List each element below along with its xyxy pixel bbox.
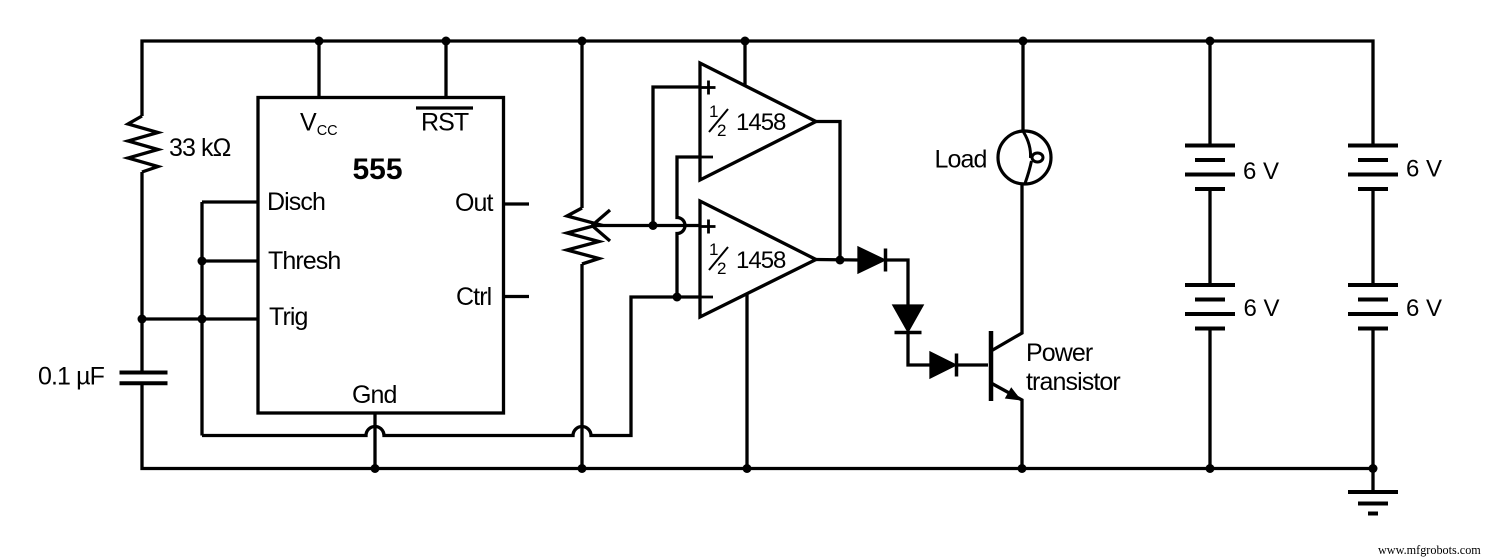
- svg-text:6 V: 6 V: [1244, 295, 1280, 322]
- battery BT4 plates: [1348, 285, 1398, 329]
- svg-text:Ctrl: Ctrl: [456, 283, 491, 311]
- svg-text:Trig: Trig: [269, 303, 308, 331]
- node dot bottom rail right corner: [1369, 464, 1378, 473]
- wire Disch pin: [202, 200, 258, 203]
- transistor Q1 emitter lead with arrow: [991, 383, 1022, 469]
- wire U2a output down to shared output node: [816, 122, 840, 261]
- lamp LP1 load circle: [998, 131, 1051, 184]
- wire Gnd pin down to rail: [373, 413, 376, 469]
- U2b plus sign: [702, 220, 716, 234]
- wire RST pin to rail: [444, 41, 447, 97]
- wire ctrl stub: [503, 295, 529, 298]
- op-amp U2b triangle: [700, 201, 816, 317]
- label half 1458 bottom: [709, 240, 786, 278]
- RST overline bar: [416, 106, 473, 109]
- svg-text:Load: Load: [935, 146, 987, 174]
- node dot minus junction: [673, 293, 682, 302]
- wire U2a V+ to rail: [743, 41, 746, 86]
- wire BT4 to bottom rail corner: [1371, 329, 1374, 493]
- wire potentiometer bottom: [580, 264, 583, 469]
- node dot U2b supply on bottom rail: [743, 464, 752, 473]
- node dot BT1 on rail: [1206, 37, 1215, 46]
- wire Thresh pin: [202, 259, 258, 262]
- diode D1: [859, 249, 886, 272]
- resistor R1 33k zigzag: [128, 116, 158, 172]
- U2b minus sign: [701, 296, 713, 299]
- svg-text:2: 2: [717, 121, 726, 140]
- wire wiper to comparator plus with hop: [592, 224, 700, 227]
- svg-text:Out: Out: [455, 189, 494, 217]
- node dot lamp on rail: [1019, 37, 1028, 46]
- wire D3 to transistor base: [957, 363, 989, 366]
- battery BT3 plates: [1348, 146, 1398, 190]
- node dot thresh junction: [198, 257, 207, 266]
- wire out stub: [503, 202, 529, 205]
- svg-text:RST: RST: [421, 109, 469, 137]
- svg-text:0.1 µF: 0.1 µF: [38, 363, 105, 391]
- transistor Q1 base bar: [989, 331, 994, 401]
- node dot pot top rail: [578, 37, 587, 46]
- battery BT1 plates: [1185, 146, 1235, 190]
- svg-text:1: 1: [709, 102, 718, 121]
- node dot Vcc on rail: [315, 37, 324, 46]
- wire U2a minus input down to U2b minus node: [677, 157, 700, 297]
- node dot op-amp outputs join: [836, 256, 845, 265]
- svg-text:1458: 1458: [736, 109, 786, 136]
- potentiometer R2 zigzag: [567, 208, 599, 264]
- node dot U2a supply on rail: [741, 37, 750, 46]
- wire Vcc pin to rail: [317, 41, 320, 97]
- wire BT2 to bottom rail: [1208, 329, 1211, 469]
- svg-text:Disch: Disch: [267, 188, 325, 216]
- potentiometer wiper arrow: [592, 210, 610, 241]
- wire left column below resistor to capacitor: [140, 172, 143, 371]
- wire Trig pin: [142, 317, 258, 320]
- ground symbol: [1348, 492, 1398, 514]
- wire lamp top to rail: [1021, 41, 1024, 131]
- svg-text:Power: Power: [1026, 339, 1093, 367]
- wire potentiometer top: [580, 41, 583, 208]
- node dot trig tap on left wire: [138, 315, 147, 324]
- label half 1458 top: [709, 102, 786, 140]
- wire rail to BT1: [1208, 41, 1211, 146]
- transistor Q1 collector lead: [991, 184, 1022, 351]
- node dot RST on rail: [442, 37, 451, 46]
- node dot emitter on bottom rail: [1018, 464, 1027, 473]
- svg-text:1: 1: [709, 240, 718, 259]
- diode D3: [931, 354, 957, 377]
- U2a plus sign: [702, 81, 716, 95]
- svg-text:33 kΩ: 33 kΩ: [169, 134, 231, 162]
- wire D2 to corner right: [908, 333, 931, 366]
- U2a minus sign: [701, 156, 713, 159]
- wire U2b V- to bottom rail: [745, 294, 748, 469]
- wire vertical disch-thresh-trig bus: [200, 202, 203, 436]
- svg-text:Gnd: Gnd: [352, 381, 397, 409]
- svg-text:Thresh: Thresh: [268, 247, 340, 275]
- svg-text:6 V: 6 V: [1406, 295, 1442, 322]
- wire BT1 to BT2: [1208, 189, 1211, 285]
- node dot BT2 on bottom rail: [1206, 464, 1215, 473]
- node dot gnd on bottom rail: [371, 464, 380, 473]
- node dot trig junction: [198, 315, 207, 324]
- svg-text:VCC: VCC: [300, 109, 338, 140]
- svg-text:www.mfgrobots.com: www.mfgrobots.com: [1378, 543, 1481, 557]
- wire feedback with hops over gnd and pot wires: [202, 297, 700, 436]
- svg-text:1458: 1458: [736, 247, 786, 274]
- wire BT3 to BT4: [1371, 189, 1374, 285]
- wire branch up to U2a plus input: [653, 87, 700, 226]
- lamp LP1 filament curl: [1024, 132, 1032, 184]
- battery BT2 plates: [1185, 285, 1235, 329]
- capacitor C1 plates: [120, 373, 168, 384]
- svg-text:6 V: 6 V: [1243, 158, 1279, 185]
- wire U2b output to node: [816, 258, 859, 262]
- wire top supply rail: [142, 41, 1373, 146]
- diode D2: [895, 306, 922, 333]
- wire D1 to corner down: [886, 260, 909, 306]
- svg-text:2: 2: [717, 259, 726, 278]
- svg-text:transistor: transistor: [1026, 368, 1120, 396]
- wire bottom ground rail: [142, 383, 1373, 469]
- svg-text:555: 555: [353, 153, 403, 186]
- node dot wiper branch: [649, 221, 658, 230]
- IC U1 555 box: [258, 98, 504, 414]
- svg-text:6 V: 6 V: [1406, 156, 1442, 183]
- op-amp U2a triangle: [700, 63, 816, 180]
- node dot pot bottom rail: [578, 464, 587, 473]
